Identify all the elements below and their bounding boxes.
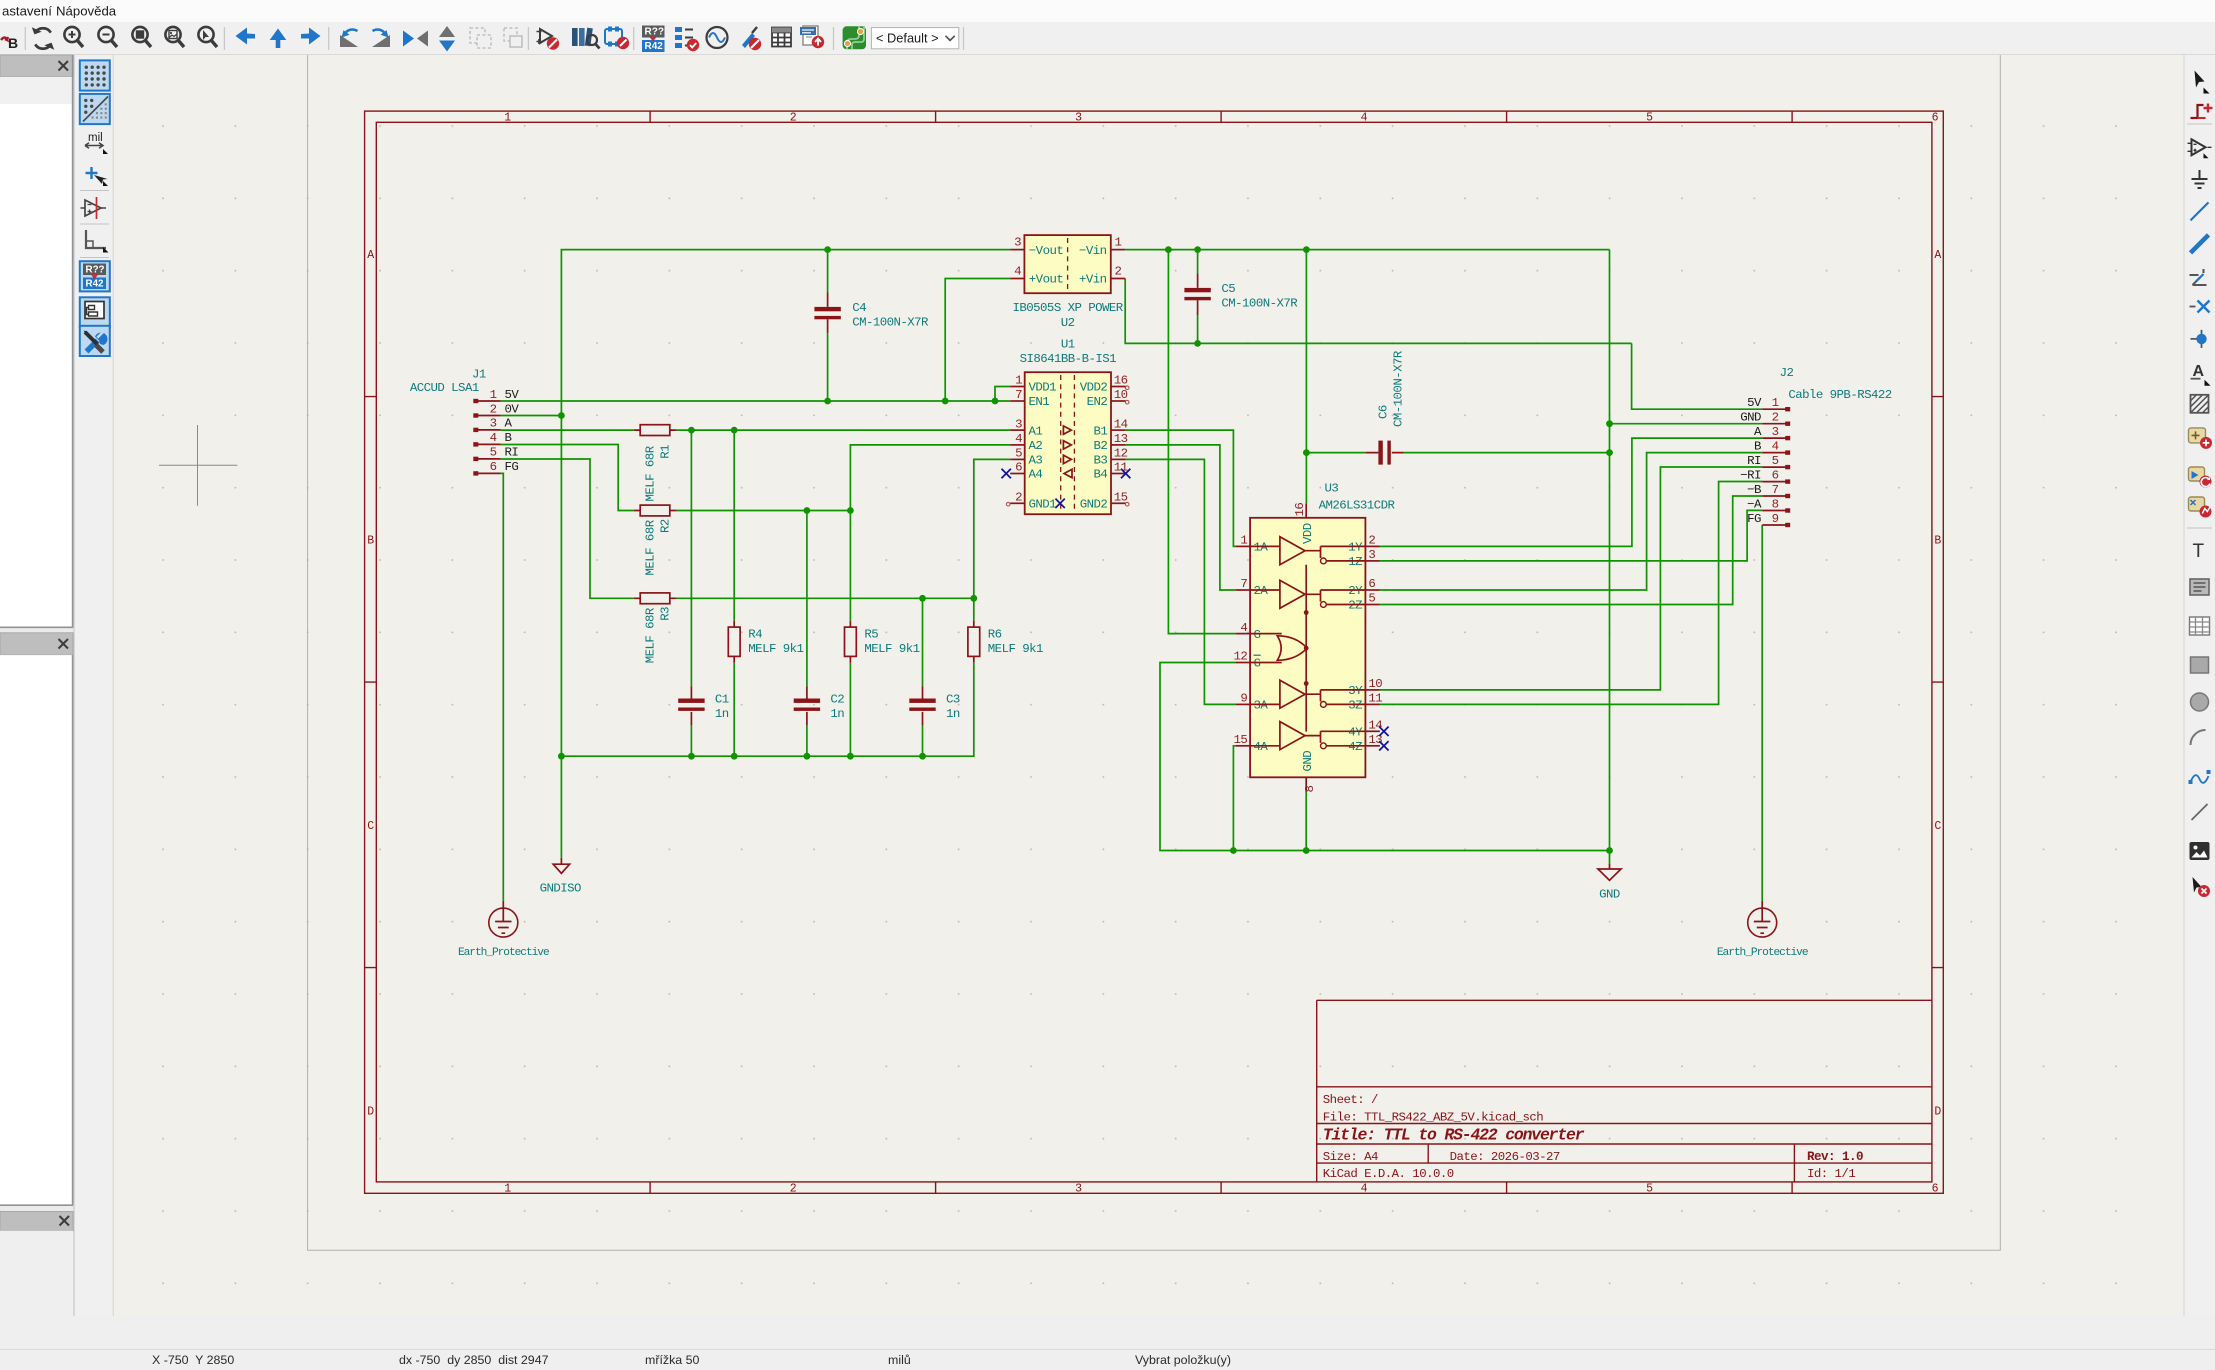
U2 pin 4 +Vout [1010, 264, 1063, 286]
svg-text:−Vin: −Vin [1079, 244, 1107, 258]
svg-text:J1: J1 [472, 368, 486, 382]
right tool: rectangle [2191, 657, 2209, 673]
capacitor C1 1n [678, 686, 729, 725]
svg-text:2Z: 2Z [1348, 599, 1362, 613]
svg-text:5V: 5V [1747, 396, 1762, 410]
svg-text:R5: R5 [864, 628, 878, 642]
right tool: table [2190, 617, 2210, 635]
U1 pin 2 GND1 [1010, 491, 1056, 512]
right tool: arc [2191, 730, 2206, 745]
svg-text:2: 2 [1368, 534, 1375, 548]
annotate R?? R42 [642, 26, 665, 53]
wire A J1.3 to R1 [501, 429, 634, 431]
svg-text:4A: 4A [1254, 740, 1269, 754]
svg-text:B1: B1 [1094, 424, 1108, 438]
svg-text:MELF 68R: MELF 68R [643, 607, 657, 663]
net highlight slash icon [742, 27, 761, 50]
power symbol GNDISO [540, 858, 581, 896]
junction (1610,850) [1606, 847, 1613, 854]
toolbar background [0, 22, 2215, 55]
svg-text:A: A [1754, 425, 1762, 439]
wire C6 right [1404, 452, 1610, 454]
junction (561,416) [558, 412, 565, 419]
left dock column background [0, 55, 114, 1316]
svg-text:EN1: EN1 [1029, 395, 1050, 409]
right tool: wire to bus entry [2190, 269, 2207, 285]
bom export icon [800, 26, 824, 48]
svg-text:B: B [505, 431, 512, 445]
U3 no-connect flags 4Y 4Z [1379, 727, 1388, 736]
svg-text:Vybrat položku(y): Vybrat položku(y) [1135, 1353, 1231, 1367]
svg-text:GND: GND [1301, 751, 1315, 772]
U1 pin 16 VDD2 [1080, 374, 1128, 395]
svg-text:1: 1 [1115, 235, 1122, 249]
rotate ccw [340, 29, 358, 47]
right tool: place symbol [2188, 139, 2212, 158]
svg-text:6: 6 [490, 460, 497, 474]
left tool: properties (selected) [80, 326, 110, 356]
svg-text:C6: C6 [1377, 405, 1391, 419]
J2 pin 5 RI [1747, 454, 1790, 469]
wire 5V J1.1 to U1.EN1 [501, 400, 1011, 402]
svg-text:+Vout: +Vout [1029, 273, 1064, 287]
svg-text:A1: A1 [1029, 424, 1043, 438]
svg-text:16: 16 [1114, 374, 1128, 388]
left tool: units mil [85, 132, 108, 154]
wire RI J1.5 to R3 [501, 459, 634, 598]
J2 pin 6 -RI [1740, 468, 1790, 483]
svg-text:A: A [2193, 363, 2205, 380]
wire R6 drop [973, 598, 975, 621]
svg-text:15: 15 [1114, 491, 1128, 505]
svg-text:A: A [367, 249, 374, 262]
sheet inner border [376, 122, 1932, 1182]
J1 pin 5 RI [473, 446, 518, 461]
zoom out [98, 27, 117, 47]
left toolbar strip [75, 55, 114, 1316]
wire GND symbol stub [1609, 851, 1611, 864]
junction (1168,250) [1165, 246, 1172, 253]
U3 pin 7 2A [1236, 577, 1269, 598]
svg-text:U1: U1 [1061, 337, 1075, 351]
group (disabled) [470, 28, 491, 48]
svg-text:6: 6 [1368, 577, 1375, 591]
left tool: cursor shape [86, 167, 109, 186]
J1 pin 1 5V [473, 388, 519, 403]
U1 pin 11 B4 [1094, 461, 1128, 482]
svg-text:1: 1 [504, 1183, 511, 1196]
svg-text:5: 5 [1646, 1183, 1653, 1196]
svg-text:11: 11 [1368, 692, 1382, 706]
svg-text:3Y: 3Y [1348, 684, 1363, 698]
svg-text:5V: 5V [505, 388, 520, 402]
default dropdown [871, 28, 958, 49]
J2 pin 2 GND [1740, 411, 1790, 426]
U3 pin 10 3Y [1348, 677, 1382, 698]
U3 pin 11 3Z [1348, 692, 1382, 713]
svg-text:RI: RI [505, 446, 519, 460]
digital isolator U1 SI8641 [1002, 337, 1131, 514]
junction (828,250) [824, 246, 831, 253]
svg-text:C4: C4 [852, 301, 866, 315]
resistor R2 MELF 68R [634, 505, 677, 575]
U1 pin 13 B2 [1094, 432, 1128, 453]
svg-text:Rev: 1.0: Rev: 1.0 [1807, 1150, 1863, 1164]
svg-text:AM26LS31CDR: AM26LS31CDR [1319, 499, 1396, 513]
svg-text:Earth_Protective: Earth_Protective [1717, 947, 1808, 959]
rotate cw [372, 29, 390, 47]
junction (561,756) [558, 753, 565, 760]
junction (945,401) [942, 398, 949, 405]
left tool: ortho drawing [86, 230, 109, 253]
table grid icon [772, 28, 791, 47]
svg-text:EN2: EN2 [1087, 395, 1108, 409]
svg-text:Cable 9PB-RS422: Cable 9PB-RS422 [1788, 388, 1891, 402]
svg-text:GND: GND [1599, 888, 1620, 902]
svg-text:6: 6 [1772, 468, 1779, 482]
J2 pin 3 A [1754, 425, 1790, 440]
svg-text:GNDISO: GNDISO [540, 882, 581, 896]
bottom strip + status bar [0, 1316, 2215, 1370]
wire A2 riser [850, 445, 1010, 511]
J2 pin 4 B [1754, 439, 1790, 454]
svg-text:C1: C1 [715, 693, 729, 707]
U3 pin 4 G [1236, 621, 1261, 642]
svg-text:2: 2 [790, 112, 797, 125]
svg-text:1: 1 [504, 112, 511, 125]
wire C5 top [1197, 250, 1199, 274]
svg-text:2Y: 2Y [1348, 584, 1363, 598]
svg-text:9: 9 [1772, 512, 1779, 526]
right tool: import sheet pin [2189, 467, 2212, 488]
svg-text:Nápověda: Nápověda [56, 4, 117, 19]
svg-text:GND2: GND2 [1080, 498, 1108, 512]
left tool: annotate (selected) [80, 261, 110, 291]
svg-text:B: B [1754, 439, 1761, 453]
junction (850,756) [847, 753, 854, 760]
wire R5 drop [849, 511, 851, 621]
svg-text:10: 10 [1368, 677, 1382, 691]
svg-text:R42: R42 [86, 279, 105, 290]
status bar texts [152, 1353, 1231, 1367]
svg-text:1Z: 1Z [1348, 555, 1362, 569]
wire C2 bottom [806, 725, 808, 756]
quad differential driver U3 AM26LS31CDR [1234, 482, 1396, 793]
erc icon [537, 29, 560, 50]
wire C3 bottom [922, 725, 924, 756]
svg-text:C: C [367, 820, 374, 833]
junction (850,510) [847, 507, 854, 514]
panel 2 [0, 633, 73, 655]
wire A3 riser [974, 459, 1010, 598]
svg-text:RI: RI [1747, 454, 1761, 468]
svg-text:ACCUD LSA1: ACCUD LSA1 [410, 381, 479, 395]
wire J2 5V riser [1632, 343, 1763, 409]
svg-text:A: A [505, 417, 513, 431]
U1 channel direction arrows [1063, 426, 1071, 434]
svg-text:B: B [1934, 534, 1941, 547]
zoom to page [165, 27, 184, 47]
right tool: text box [2190, 579, 2209, 595]
wire C1 top drop [690, 430, 692, 686]
U1 pin 6 A4 [1010, 461, 1042, 482]
svg-text:4: 4 [1014, 264, 1021, 278]
svg-text:U3: U3 [1325, 482, 1339, 496]
junction (1198,343) [1194, 340, 1201, 347]
U1 pin 14 B1 [1094, 417, 1128, 438]
U3 pin 3 1Z [1348, 548, 1380, 569]
svg-text:3Z: 3Z [1348, 699, 1362, 713]
simulator icon [707, 27, 728, 48]
wire C5 bottom [1197, 314, 1199, 344]
svg-text:4: 4 [1240, 621, 1247, 635]
mirror horizontally [403, 31, 428, 47]
J1 pin 2 0V [473, 402, 519, 417]
open pcb icon [843, 26, 866, 49]
svg-text:8: 8 [1772, 497, 1779, 511]
svg-text:3A: 3A [1254, 699, 1269, 713]
svg-text:MELF 9k1: MELF 9k1 [988, 642, 1043, 656]
svg-text:T: T [2193, 541, 2205, 562]
wire VDD right drop [1609, 250, 1611, 851]
svg-text:0V: 0V [505, 402, 520, 416]
wire C6 left [1306, 452, 1366, 454]
svg-text:4: 4 [1361, 112, 1368, 125]
U1 no-connect flags [1002, 469, 1011, 478]
svg-text:A: A [1934, 249, 1941, 262]
right tool: bezier [2189, 770, 2211, 784]
wire B2 to 2A [1126, 445, 1236, 590]
svg-text:3: 3 [1015, 417, 1022, 431]
right tool: place power symbol [2192, 170, 2208, 188]
junction (922,598) [919, 595, 926, 602]
svg-text:5: 5 [1646, 112, 1653, 125]
J1 pin 6 FG [473, 460, 518, 475]
svg-text:VDD1: VDD1 [1029, 381, 1057, 395]
svg-text:Sheet: /: Sheet: / [1323, 1093, 1378, 1107]
U3 pin 13 4Z [1348, 733, 1382, 754]
resistor R6 MELF 9k1 [968, 621, 1043, 663]
svg-text:3: 3 [1014, 235, 1021, 249]
wire FG J1.6 to earth [501, 473, 504, 901]
svg-text:5: 5 [1368, 592, 1375, 606]
wire +Vout to 5V [945, 279, 1010, 402]
svg-text:−A: −A [1747, 497, 1762, 511]
svg-text:R42: R42 [645, 41, 664, 52]
J1 pin 4 B [473, 431, 511, 446]
svg-text:14: 14 [1114, 417, 1128, 431]
U1 pin 1 VDD1 [1010, 374, 1056, 395]
svg-text:1Y: 1Y [1348, 541, 1363, 555]
svg-text:B: B [367, 534, 374, 547]
right tool: place wire [2191, 202, 2209, 220]
left tool: grid dots (selected) [80, 60, 110, 90]
junction (1306,850) [1303, 847, 1310, 854]
svg-text:C5: C5 [1221, 282, 1235, 296]
wire GNDISO rail [561, 663, 973, 757]
paper edges [308, 55, 2001, 1251]
wire R1 to U1.A1 [676, 429, 1010, 431]
svg-text:5: 5 [1015, 447, 1022, 461]
svg-text:2: 2 [1772, 411, 1779, 425]
U3 pin 5 2Z [1348, 592, 1380, 613]
svg-text:U2: U2 [1061, 316, 1075, 330]
svg-text:12: 12 [1234, 650, 1248, 664]
right tool: circle [2191, 693, 2209, 711]
svg-text:C2: C2 [830, 693, 844, 707]
junction (922,756) [919, 753, 926, 760]
svg-text:A2: A2 [1029, 439, 1043, 453]
svg-text:FG: FG [1747, 512, 1761, 526]
svg-text:7: 7 [1772, 483, 1779, 497]
svg-text:13: 13 [1114, 432, 1128, 446]
power symbol GND [1598, 864, 1621, 902]
wire R5 bottom [849, 663, 851, 757]
right tool: place text [2193, 541, 2205, 562]
svg-text:2: 2 [1015, 491, 1022, 505]
svg-text:mřížka 50: mřížka 50 [645, 1353, 700, 1367]
resistor R3 MELF 68R [634, 593, 677, 663]
wire 0V J1.2 [501, 415, 562, 417]
junction (1610,424) [1606, 420, 1613, 427]
svg-text:2: 2 [790, 1183, 797, 1196]
svg-text:4: 4 [1361, 1183, 1368, 1196]
svg-text:3: 3 [1368, 548, 1375, 562]
svg-text:−B: −B [1747, 483, 1761, 497]
svg-text:B3: B3 [1094, 454, 1108, 468]
junction (828,401) [824, 398, 831, 405]
right tool: net label [2191, 363, 2211, 386]
nav left arrow [236, 28, 256, 45]
J2 pin 7 -B [1747, 483, 1790, 498]
svg-text:MELF 9k1: MELF 9k1 [864, 642, 919, 656]
wire Gbar to rail [1160, 663, 1610, 851]
svg-text:1A: 1A [1254, 541, 1269, 555]
column ticks [365, 111, 1944, 1193]
wire B3 to 3A [1126, 459, 1236, 704]
junction (995,401) [992, 398, 999, 405]
ungroup (disabled) [504, 28, 522, 47]
U1 pin 10 EN2 [1087, 388, 1128, 409]
capacitor C6 (horizontal) [1366, 350, 1406, 464]
U3 pin 6 2Y [1348, 577, 1380, 598]
U3 pin 2 1Y [1348, 534, 1380, 555]
svg-text:B2: B2 [1094, 439, 1108, 453]
panel 1 [0, 55, 73, 77]
wire 4A tie [1233, 746, 1235, 851]
wire 2Y to J2.B [1380, 453, 1762, 590]
wire R3 to R6/A3 [676, 597, 973, 599]
U1 pin 7 EN1 [1010, 388, 1049, 409]
junction (1198,250) [1194, 246, 1201, 253]
nav up arrow [270, 29, 287, 49]
symbol fields table [675, 27, 699, 51]
capacitor C3 1n [909, 686, 960, 725]
capacitor C2 1n [794, 686, 845, 725]
svg-text:3: 3 [1772, 425, 1779, 439]
junction (1306,453) [1303, 449, 1310, 456]
svg-text:CM-100N-X7R: CM-100N-X7R [852, 316, 929, 330]
svg-text:−Vout: −Vout [1029, 244, 1064, 258]
J2 pin 8 -A [1747, 497, 1790, 512]
U3 pin 1 1A [1236, 534, 1269, 555]
svg-text:2: 2 [490, 402, 497, 416]
svg-text:File: TTL_RS422_ABZ_5V.kicad_s: File: TTL_RS422_ABZ_5V.kicad_sch [1323, 1111, 1543, 1125]
left tool: hierarchy navigator (selected) [80, 297, 110, 327]
capacitor C5 [1184, 274, 1298, 315]
svg-text:milů: milů [888, 1353, 911, 1367]
svg-text:8: 8 [1303, 786, 1317, 793]
svg-text:3: 3 [490, 417, 497, 431]
svg-text:Id: 1/1: Id: 1/1 [1807, 1167, 1855, 1181]
U3 pin 16 VDD [1293, 503, 1315, 544]
nav right arrow [301, 28, 321, 45]
right tool: cursor [2195, 71, 2210, 94]
svg-text:5: 5 [490, 446, 497, 460]
svg-text:KiCad E.D.A. 10.0.0: KiCad E.D.A. 10.0.0 [1323, 1167, 1454, 1181]
svg-text:12: 12 [1114, 447, 1128, 461]
svg-text:4: 4 [1772, 439, 1779, 453]
svg-text:6: 6 [1932, 1183, 1939, 1196]
right tool: net class directive [2191, 395, 2209, 413]
junction (691,430) [688, 427, 695, 434]
svg-text:Size: A4: Size: A4 [1323, 1150, 1378, 1164]
wire GNDISO drop [560, 416, 562, 858]
connector J2 Cable 9PB-RS422 [1740, 366, 1892, 527]
svg-text:R6: R6 [988, 628, 1002, 642]
svg-text:D: D [367, 1105, 374, 1118]
zoom in [64, 27, 83, 47]
J2 pin 1 5V [1747, 396, 1790, 411]
wire J2 GND branch [1610, 423, 1763, 425]
svg-text:9: 9 [1240, 692, 1247, 706]
svg-text:FG: FG [505, 460, 519, 474]
title block [1317, 1000, 1932, 1182]
junction (691,756) [688, 753, 695, 760]
svg-text:−RI: −RI [1740, 468, 1761, 482]
left tool: grid overrides (selected) [80, 94, 110, 124]
wire C3 top drop [922, 598, 924, 686]
svg-text:G: G [1254, 657, 1261, 671]
wire B J1.4 to R2 [501, 445, 634, 511]
zoom fit [132, 27, 151, 47]
svg-text:B: B [8, 35, 18, 51]
junction (974,598) [970, 595, 977, 602]
svg-text:7: 7 [1015, 388, 1022, 402]
U2 pin 2 +Vin [1079, 264, 1125, 286]
junction (807,756) [804, 753, 811, 760]
junction (1610,453) [1606, 449, 1613, 456]
svg-text:VDD2: VDD2 [1080, 381, 1108, 395]
svg-text:C: C [1934, 820, 1941, 833]
U1 unconnected pin circles [1006, 386, 1129, 506]
right tool: hierarchical sheet [2189, 497, 2212, 518]
right tool: image [2190, 842, 2210, 860]
svg-text:CM-100N-X7R: CM-100N-X7R [1221, 297, 1298, 311]
svg-text:10: 10 [1114, 388, 1128, 402]
svg-text:R3: R3 [658, 607, 672, 621]
right tool: hierarchical label [2189, 428, 2213, 449]
svg-text:3: 3 [1075, 1183, 1082, 1196]
right tool: no connect [2190, 301, 2210, 313]
svg-text:4: 4 [490, 431, 497, 445]
svg-text:G: G [1254, 628, 1261, 642]
capacitor C4 [814, 293, 929, 334]
svg-text:A4: A4 [1029, 468, 1043, 482]
svg-text:IB0505S XP POWER: IB0505S XP POWER [1013, 301, 1124, 315]
svg-text:mil: mil [88, 132, 103, 144]
U3 pin 14 4Y [1348, 719, 1382, 740]
